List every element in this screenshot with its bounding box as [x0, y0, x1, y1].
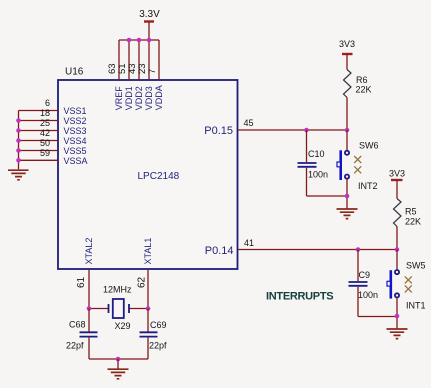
svg-text:XTAL2: XTAL2	[84, 238, 94, 265]
svg-text:INTERRUPTS: INTERRUPTS	[266, 291, 333, 303]
svg-text:R6: R6	[356, 75, 368, 85]
svg-text:12MHz: 12MHz	[103, 285, 132, 295]
svg-text:22pf: 22pf	[66, 341, 84, 351]
svg-text:VDD3: VDD3	[144, 86, 154, 110]
svg-text:VDD2: VDD2	[134, 86, 144, 110]
svg-text:100n: 100n	[358, 290, 378, 300]
svg-text:VSSA: VSSA	[64, 156, 88, 166]
svg-text:VSS4: VSS4	[64, 136, 87, 146]
svg-text:VDD1: VDD1	[124, 86, 134, 110]
svg-text:50: 50	[40, 138, 50, 148]
svg-text:X29: X29	[115, 321, 131, 331]
svg-text:R5: R5	[405, 207, 417, 217]
svg-text:VDDA: VDDA	[154, 85, 164, 110]
svg-text:25: 25	[40, 118, 50, 128]
svg-text:VSS3: VSS3	[64, 126, 87, 136]
svg-text:XTAL1: XTAL1	[143, 238, 153, 265]
svg-text:C9: C9	[359, 270, 371, 280]
svg-text:C68: C68	[69, 320, 86, 330]
svg-text:59: 59	[40, 148, 50, 158]
svg-text:62: 62	[137, 276, 148, 288]
svg-text:INT2: INT2	[358, 181, 378, 191]
svg-text:VSS2: VSS2	[64, 116, 87, 126]
svg-text:22pf: 22pf	[149, 341, 167, 351]
svg-text:6: 6	[45, 98, 50, 108]
svg-text:61: 61	[76, 276, 87, 288]
svg-text:P0.15: P0.15	[204, 125, 233, 137]
svg-text:VSS5: VSS5	[64, 146, 87, 156]
svg-text:SW6: SW6	[359, 141, 379, 151]
svg-text:C10: C10	[308, 149, 325, 159]
svg-text:3V3: 3V3	[389, 169, 405, 179]
svg-text:VSS1: VSS1	[64, 106, 87, 116]
svg-text:7: 7	[147, 69, 158, 74]
svg-text:3.3V: 3.3V	[139, 9, 160, 20]
svg-text:LPC2148: LPC2148	[138, 171, 180, 182]
svg-text:C69: C69	[150, 320, 167, 330]
svg-text:100n: 100n	[308, 169, 328, 179]
svg-text:VREF: VREF	[114, 86, 124, 111]
svg-text:P0.14: P0.14	[205, 245, 234, 257]
svg-text:SW5: SW5	[406, 261, 426, 271]
svg-text:INT1: INT1	[406, 301, 426, 311]
svg-text:22K: 22K	[405, 217, 421, 227]
svg-text:42: 42	[40, 128, 50, 138]
svg-text:18: 18	[40, 108, 50, 118]
svg-text:45: 45	[244, 118, 254, 128]
svg-text:22K: 22K	[356, 85, 372, 95]
svg-text:U16: U16	[65, 67, 84, 78]
svg-text:41: 41	[244, 238, 254, 248]
svg-text:3V3: 3V3	[339, 39, 355, 49]
